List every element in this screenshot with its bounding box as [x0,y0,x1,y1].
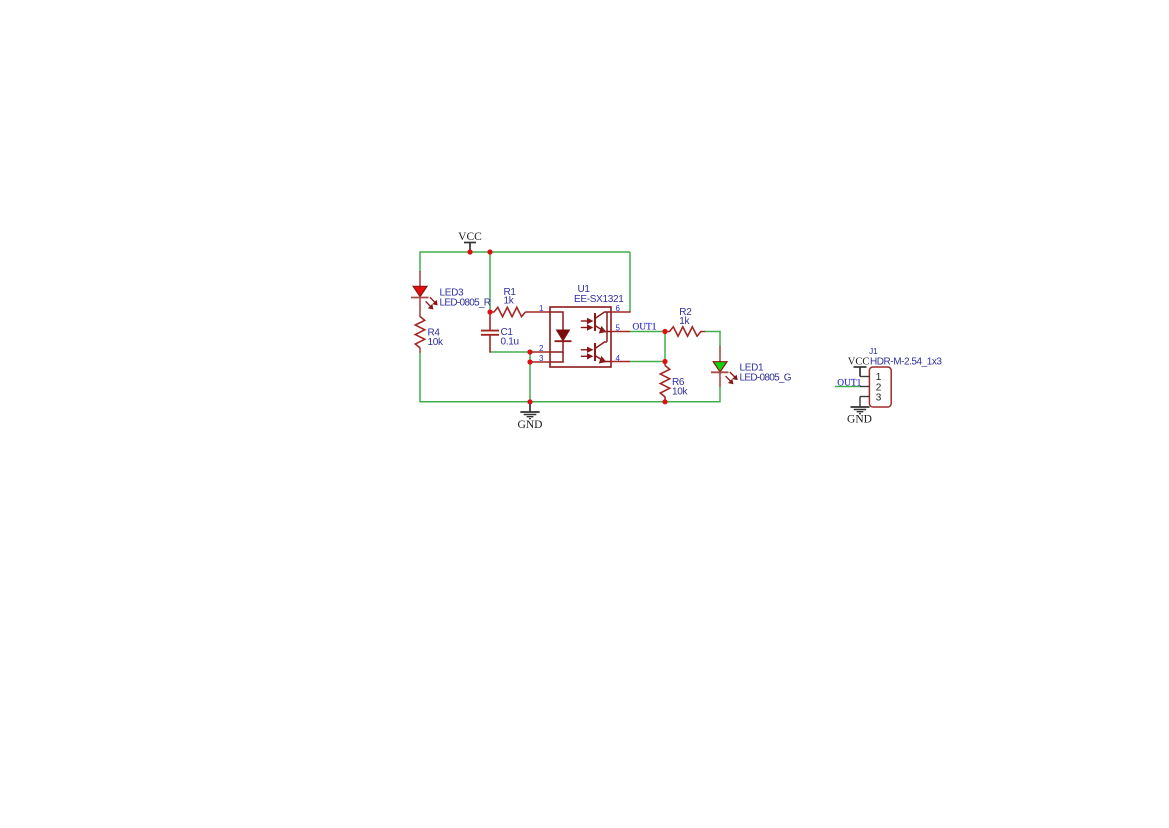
U1 internal diode cathode bar [555,340,572,342]
svg-text:OUT1: OUT1 [633,323,657,333]
wire: vertical OUT1 node to R6 node [664,332,666,362]
J1 pin 3 lead [860,396,870,398]
svg-text:3: 3 [876,393,882,404]
svg-text:LED-0805_G: LED-0805_G [740,372,792,383]
junction dot VCC flag [467,249,472,254]
wire: R2 right to LED1 column [705,331,721,333]
LED LED1 emission arrow 2 [726,376,733,384]
svg-text:0.1u: 0.1u [501,337,519,348]
svg-text:OUT1: OUT1 [837,378,861,388]
LED LED3 triangle [413,286,427,296]
U1 pin4 lead [611,361,630,363]
U1 phototransistor Q-top base bar [594,313,596,331]
svg-text:1k: 1k [679,316,690,327]
U1 Q-top emitter with arrow [595,326,606,333]
junction dot R6 bottom node [662,399,667,404]
LED LED1 triangle [713,362,727,372]
wire: vertical drop from VCC rail to R1/C1 node [489,252,491,312]
U1 internal cathode line to pin2/pin3 [550,341,563,352]
power flag VCC (J1) [854,367,867,377]
svg-text:3: 3 [539,354,544,363]
U1 internal anode line (pin1) [550,312,563,330]
connector J1 body box [869,367,891,407]
resistor R6 top lead [664,362,666,366]
svg-text:4: 4 [616,354,621,363]
LED LED1 cathode bar [711,371,729,373]
J1 pin 1 lead [860,376,870,378]
svg-text:2: 2 [539,344,544,353]
U1 internal pin3 link [550,352,563,362]
svg-text:5: 5 [616,324,621,333]
svg-text:GND: GND [847,414,872,426]
optocoupler U1 body box [550,307,611,367]
svg-text:VCC: VCC [458,231,482,243]
resistor R6 bottom lead [664,397,666,402]
junction dot VCC rail / R1 column [487,249,492,254]
LED D LED3 top lead [419,271,421,287]
LED LED3 emission arrow 2 [426,301,433,309]
U1 Q-bottom collector [595,342,607,349]
power flag VCC (top) [464,243,476,253]
U1 pin3 lead [530,361,550,363]
junction dot pin3 node [527,359,532,364]
J1 pin 2 lead [860,386,870,388]
wire: vertical from VCC rail to U1 pin6 [629,252,631,312]
LED3-R4 lead [419,298,421,318]
U1 collector link vertical (pin6 to Q-bottom) [606,312,608,342]
svg-text:6: 6 [616,304,621,313]
resistor R1 body [490,307,525,316]
wire: U1 pin4 to R6 node [630,361,665,363]
LED LED1 top lead [719,346,721,362]
LED LED3 cathode bar [411,297,429,299]
U1 pin5 lead [611,331,630,333]
capacitor C1 plate bottom [481,334,499,336]
svg-text:10k: 10k [672,387,689,398]
junction dot pin4/R6 node [662,359,667,364]
junction dot OUT1 node [662,329,667,334]
svg-text:HDR-M-2.54_1x3: HDR-M-2.54_1x3 [870,356,942,367]
U1 Q-bottom emitter with arrow [595,356,606,363]
junction dot pin2 node [527,349,532,354]
wire: left vertical lower (R4 to bottom rail) [419,352,421,403]
U1 pin2 lead [530,351,550,353]
wire: top VCC rail horizontal [420,251,630,253]
resistor R4 bottom lead [419,348,421,353]
svg-text:1: 1 [539,304,544,313]
J1 pin3 to ground bend [859,397,861,407]
svg-text:LED-0805_R: LED-0805_R [440,298,491,309]
resistor R2 body [665,327,705,336]
U1 pin4 internal line [605,361,612,363]
junction dot GND node [527,399,532,404]
capacitor C1 bottom lead [489,335,491,353]
wire: OUT1 stub to J1 pin2 [835,386,860,388]
LED LED3 emission arrow 1 [430,297,437,305]
LED LED1 bottom lead [719,372,721,387]
resistor R4 body [415,317,424,348]
ground symbol GND (bottom) [520,402,539,419]
svg-text:1k: 1k [504,296,515,307]
U1 Q-top collector [595,312,611,319]
wire: C1 bottom to U1 pin2 node [490,351,530,353]
U1 pin6 lead [611,311,631,313]
svg-text:VCC: VCC [848,357,870,368]
U1 light arrow 3 [581,347,593,352]
wire: U1 pin5 to OUT1 node [630,331,665,333]
resistor R1 right lead / U1 pin1 lead [525,311,550,313]
capacitor C1 top lead [489,312,491,330]
capacitor C1 plate top [481,330,499,332]
resistor R6 body [660,366,669,397]
wire: vertical from pin2/pin3 node to bottom rail [529,352,531,403]
LED LED1 emission arrow 1 [730,372,737,380]
wire: LED1 column top vertical [719,331,721,347]
U1 phototransistor Q-bottom base bar [594,343,596,361]
svg-text:10k: 10k [428,337,445,348]
wire: left vertical upper (to LED3) [419,251,421,272]
wire: LED1 column bottom vertical [719,387,721,403]
svg-text:J1: J1 [869,346,878,356]
U1 pin5 internal line [605,331,612,333]
U1 light arrow 1 [581,319,593,324]
wire: bottom GND rail horizontal [420,401,720,403]
svg-text:GND: GND [518,419,543,431]
ground symbol GND (J1) [851,407,870,414]
U1 light arrow 2 [581,325,593,330]
svg-text:1: 1 [876,372,882,383]
junction dot R1/C1 node [487,309,492,314]
U1 internal emitter diode triangle [557,330,570,341]
U1 light arrow 4 [581,354,593,359]
